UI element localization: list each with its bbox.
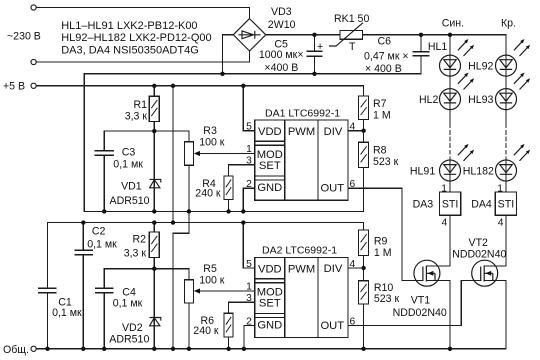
svg-text:R8: R8 — [373, 144, 387, 156]
svg-text:OUT: OUT — [320, 182, 344, 194]
svg-text:STI: STI — [498, 199, 514, 211]
svg-text:VD2: VD2 — [122, 322, 143, 334]
svg-text:HL92–HL182 LXK2-PD12-Q00: HL92–HL182 LXK2-PD12-Q00 — [61, 32, 211, 44]
svg-text:4: 4 — [350, 121, 356, 132]
svg-text:R3: R3 — [203, 125, 217, 137]
svg-text:2: 2 — [246, 316, 252, 327]
svg-text:1: 1 — [246, 282, 252, 293]
svg-text:5: 5 — [246, 259, 252, 270]
svg-text:0,1 мк: 0,1 мк — [87, 238, 117, 250]
svg-text:DIV: DIV — [324, 263, 343, 275]
svg-text:523 к: 523 к — [373, 156, 399, 168]
svg-text:NDD02N40: NDD02N40 — [393, 307, 447, 319]
svg-text:5: 5 — [246, 121, 252, 132]
svg-text:6: 6 — [350, 316, 356, 327]
svg-text:VD3: VD3 — [271, 6, 292, 18]
svg-text:VT2: VT2 — [469, 237, 489, 249]
svg-text:3,3 к: 3,3 к — [125, 110, 148, 122]
svg-text:С4: С4 — [122, 286, 136, 298]
svg-text:2W10: 2W10 — [268, 19, 296, 31]
svg-text:0,1 мк: 0,1 мк — [113, 159, 143, 171]
svg-text:VDD: VDD — [258, 126, 282, 138]
svg-text:HL1: HL1 — [428, 41, 448, 53]
svg-text:DA4: DA4 — [471, 199, 492, 211]
svg-text:R9: R9 — [374, 235, 388, 247]
svg-text:VDD: VDD — [258, 264, 282, 276]
svg-text:С6: С6 — [378, 36, 392, 48]
svg-text:1 М: 1 М — [374, 247, 392, 259]
svg-text:VD1: VD1 — [121, 181, 142, 193]
svg-text:DA3, DA4 NSI50350ADT4G: DA3, DA4 NSI50350ADT4G — [61, 44, 199, 56]
svg-text:PWM: PWM — [288, 264, 315, 276]
svg-text:HL91: HL91 — [410, 166, 435, 178]
svg-text:240 к: 240 к — [195, 188, 221, 200]
svg-text:ADR510: ADR510 — [109, 333, 149, 345]
svg-text:3,3 к: 3,3 к — [124, 248, 147, 260]
svg-text:DIV: DIV — [324, 126, 343, 138]
svg-text:ADR510: ADR510 — [110, 195, 150, 207]
svg-text:1000 мк×: 1000 мк× — [259, 49, 304, 61]
svg-text:HL2: HL2 — [419, 94, 439, 106]
svg-text:1 М: 1 М — [373, 109, 391, 121]
svg-text:4: 4 — [498, 218, 504, 229]
svg-text:1: 1 — [497, 184, 503, 195]
svg-text:HL93: HL93 — [468, 94, 493, 106]
svg-text:SET: SET — [259, 160, 281, 172]
svg-text:2: 2 — [246, 179, 252, 190]
svg-text:3: 3 — [246, 156, 252, 167]
svg-text:HL182: HL182 — [463, 166, 494, 178]
svg-text:GND: GND — [257, 320, 282, 332]
svg-text:+: + — [317, 41, 323, 53]
svg-text:3: 3 — [246, 293, 252, 304]
svg-text:1: 1 — [441, 184, 447, 195]
svg-text:Общ.: Общ. — [3, 344, 29, 356]
svg-text:0,1 мк: 0,1 мк — [52, 307, 82, 319]
svg-text:100 к: 100 к — [199, 275, 225, 287]
svg-text:VT1: VT1 — [411, 294, 431, 306]
svg-text:DA1 LTC6992-1: DA1 LTC6992-1 — [265, 108, 340, 120]
svg-text:R1: R1 — [133, 99, 147, 111]
svg-text:OUT: OUT — [320, 320, 344, 332]
svg-text:HL1–HL91 LXK2-PB12-K00: HL1–HL91 LXK2-PB12-K00 — [61, 20, 197, 32]
svg-text:Син.: Син. — [442, 18, 464, 30]
svg-text:R7: R7 — [373, 98, 387, 110]
svg-text:PWM: PWM — [288, 126, 315, 138]
svg-text:T: T — [349, 41, 356, 53]
svg-text:С3: С3 — [122, 147, 136, 159]
svg-text:RK1 50: RK1 50 — [334, 13, 369, 25]
svg-text:× 400 В: × 400 В — [365, 63, 402, 75]
svg-text:HL92: HL92 — [468, 61, 493, 73]
svg-text:+5 В: +5 В — [3, 81, 25, 93]
svg-text:R2: R2 — [132, 234, 146, 246]
svg-text:240 к: 240 к — [193, 325, 219, 337]
svg-text:6: 6 — [350, 179, 356, 190]
svg-text:GND: GND — [257, 182, 282, 194]
svg-text:С2: С2 — [92, 226, 106, 238]
svg-text:~230 В: ~230 В — [7, 31, 41, 43]
svg-text:4: 4 — [350, 259, 356, 270]
svg-text:0,1 мк: 0,1 мк — [113, 298, 143, 310]
svg-text:NDD02N40: NDD02N40 — [452, 248, 506, 260]
svg-text:4: 4 — [441, 218, 447, 229]
svg-text:STI: STI — [442, 199, 458, 211]
svg-text:1: 1 — [246, 144, 252, 155]
svg-text:100 к: 100 к — [199, 137, 225, 149]
svg-text:R5: R5 — [203, 263, 217, 275]
svg-text:Кр.: Кр. — [501, 18, 516, 30]
svg-text:SET: SET — [259, 297, 281, 309]
svg-text:523 к: 523 к — [374, 293, 400, 305]
svg-text:0,47 мк ×: 0,47 мк × — [364, 51, 409, 63]
svg-text:×400 В: ×400 В — [264, 62, 298, 74]
svg-text:DA3: DA3 — [413, 199, 434, 211]
svg-text:DA2 LTC6992-1: DA2 LTC6992-1 — [262, 244, 337, 256]
